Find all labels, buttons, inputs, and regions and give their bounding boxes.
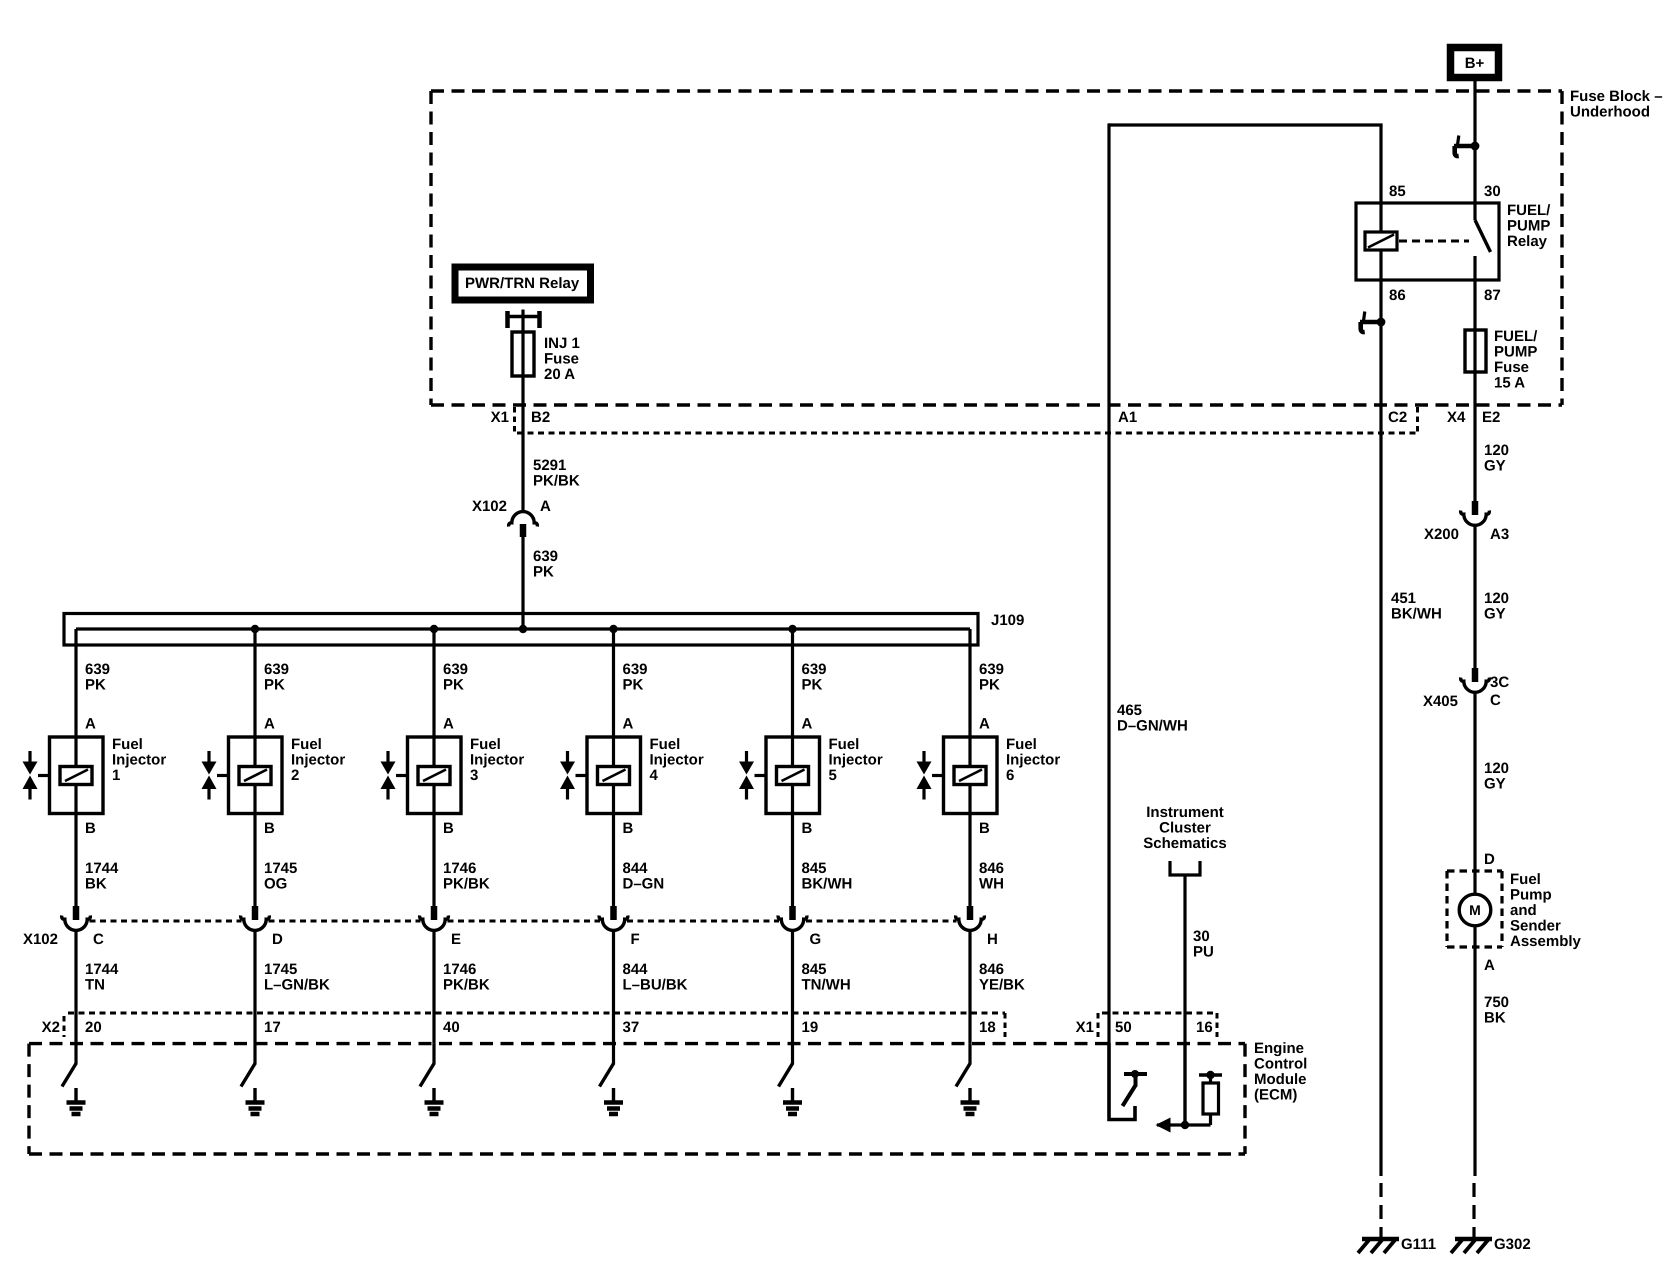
svg-text:Fuel: Fuel bbox=[291, 736, 322, 753]
svg-text:30: 30 bbox=[1484, 183, 1501, 200]
svg-text:A3: A3 bbox=[1490, 526, 1509, 543]
svg-text:17: 17 bbox=[264, 1019, 281, 1036]
svg-text:and: and bbox=[1510, 902, 1537, 919]
svg-text:2: 2 bbox=[291, 767, 299, 784]
svg-text:846: 846 bbox=[979, 961, 1004, 978]
svg-text:GY: GY bbox=[1484, 458, 1506, 475]
svg-text:PU: PU bbox=[1193, 944, 1214, 961]
svg-text:Fuel: Fuel bbox=[1006, 736, 1037, 753]
svg-text:C: C bbox=[93, 931, 104, 948]
svg-text:A1: A1 bbox=[1118, 409, 1137, 426]
svg-text:120: 120 bbox=[1484, 442, 1509, 459]
svg-text:A: A bbox=[85, 716, 96, 733]
svg-text:1745: 1745 bbox=[264, 961, 297, 978]
svg-text:Instrument: Instrument bbox=[1146, 804, 1224, 821]
svg-text:PK/BK: PK/BK bbox=[443, 876, 490, 893]
svg-text:85: 85 bbox=[1389, 183, 1406, 200]
svg-text:Relay: Relay bbox=[1507, 233, 1548, 250]
svg-text:Fuse Block –: Fuse Block – bbox=[1570, 88, 1663, 105]
svg-text:PK: PK bbox=[443, 677, 464, 694]
svg-text:TN/WH: TN/WH bbox=[802, 977, 851, 994]
svg-text:Fuse: Fuse bbox=[1494, 359, 1529, 376]
svg-text:GY: GY bbox=[1484, 606, 1506, 623]
svg-text:OG: OG bbox=[264, 876, 287, 893]
svg-text:L–GN/BK: L–GN/BK bbox=[264, 977, 330, 994]
svg-text:C: C bbox=[1490, 692, 1501, 709]
svg-text:Module: Module bbox=[1254, 1071, 1307, 1088]
svg-text:E2: E2 bbox=[1482, 409, 1500, 426]
svg-text:PK: PK bbox=[802, 677, 823, 694]
svg-text:5: 5 bbox=[829, 767, 837, 784]
svg-text:639: 639 bbox=[979, 661, 1004, 678]
svg-text:FUEL/: FUEL/ bbox=[1507, 202, 1551, 219]
svg-text:451: 451 bbox=[1391, 590, 1416, 607]
svg-text:Injector: Injector bbox=[650, 752, 704, 769]
svg-text:1744: 1744 bbox=[85, 860, 119, 877]
svg-text:3C: 3C bbox=[1490, 674, 1509, 691]
svg-text:639: 639 bbox=[802, 661, 827, 678]
svg-text:YE/BK: YE/BK bbox=[979, 977, 1025, 994]
svg-text:639: 639 bbox=[443, 661, 468, 678]
svg-text:PUMP: PUMP bbox=[1494, 344, 1537, 361]
svg-text:1: 1 bbox=[112, 767, 120, 784]
svg-text:D: D bbox=[1484, 851, 1495, 868]
svg-text:639: 639 bbox=[264, 661, 289, 678]
svg-text:(ECM): (ECM) bbox=[1254, 1087, 1297, 1104]
svg-text:G: G bbox=[810, 931, 822, 948]
svg-text:Schematics: Schematics bbox=[1143, 835, 1226, 852]
svg-text:X2: X2 bbox=[42, 1019, 60, 1036]
svg-text:Injector: Injector bbox=[1006, 752, 1060, 769]
svg-text:X102: X102 bbox=[472, 498, 507, 515]
svg-text:4: 4 bbox=[650, 767, 659, 784]
svg-text:Fuel: Fuel bbox=[470, 736, 501, 753]
svg-text:37: 37 bbox=[623, 1019, 640, 1036]
svg-text:B: B bbox=[264, 820, 275, 837]
svg-text:750: 750 bbox=[1484, 994, 1509, 1011]
svg-text:A: A bbox=[540, 498, 551, 515]
svg-text:PK/BK: PK/BK bbox=[533, 473, 580, 490]
svg-text:J109: J109 bbox=[991, 612, 1024, 629]
svg-text:GY: GY bbox=[1484, 776, 1506, 793]
svg-text:B: B bbox=[623, 820, 634, 837]
svg-text:A: A bbox=[1484, 957, 1495, 974]
svg-text:BK: BK bbox=[85, 876, 107, 893]
svg-text:Injector: Injector bbox=[470, 752, 524, 769]
svg-text:A: A bbox=[802, 716, 813, 733]
svg-text:465: 465 bbox=[1117, 702, 1142, 719]
svg-text:PK: PK bbox=[533, 564, 554, 581]
svg-text:B: B bbox=[979, 820, 990, 837]
svg-text:B: B bbox=[85, 820, 96, 837]
svg-text:40: 40 bbox=[443, 1019, 460, 1036]
svg-text:19: 19 bbox=[802, 1019, 819, 1036]
svg-text:15 A: 15 A bbox=[1494, 375, 1525, 392]
svg-text:M: M bbox=[1469, 902, 1481, 918]
svg-text:BK: BK bbox=[1484, 1010, 1506, 1027]
svg-text:Assembly: Assembly bbox=[1510, 933, 1582, 950]
svg-text:B+: B+ bbox=[1465, 55, 1485, 72]
svg-text:18: 18 bbox=[979, 1019, 996, 1036]
svg-text:A: A bbox=[979, 716, 990, 733]
svg-text:B2: B2 bbox=[531, 409, 550, 426]
svg-text:16: 16 bbox=[1196, 1019, 1213, 1036]
svg-text:A: A bbox=[443, 716, 454, 733]
svg-text:G111: G111 bbox=[1401, 1236, 1436, 1253]
svg-text:X4: X4 bbox=[1447, 409, 1466, 426]
svg-text:TN: TN bbox=[85, 977, 105, 994]
svg-text:B: B bbox=[443, 820, 454, 837]
svg-text:50: 50 bbox=[1115, 1019, 1132, 1036]
svg-text:20: 20 bbox=[85, 1019, 102, 1036]
svg-text:PK/BK: PK/BK bbox=[443, 977, 490, 994]
svg-text:1745: 1745 bbox=[264, 860, 297, 877]
svg-text:PK: PK bbox=[264, 677, 285, 694]
svg-text:Control: Control bbox=[1254, 1056, 1307, 1073]
svg-text:X200: X200 bbox=[1424, 526, 1459, 543]
svg-text:PK: PK bbox=[979, 677, 1000, 694]
svg-text:Fuel: Fuel bbox=[112, 736, 143, 753]
svg-text:WH: WH bbox=[979, 876, 1004, 893]
svg-text:87: 87 bbox=[1484, 287, 1501, 304]
svg-text:86: 86 bbox=[1389, 287, 1406, 304]
svg-text:D–GN/WH: D–GN/WH bbox=[1117, 718, 1188, 735]
svg-text:Engine: Engine bbox=[1254, 1040, 1304, 1057]
svg-text:Pump: Pump bbox=[1510, 887, 1552, 904]
svg-text:639: 639 bbox=[85, 661, 110, 678]
svg-text:Underhood: Underhood bbox=[1570, 104, 1650, 121]
svg-text:BK/WH: BK/WH bbox=[1391, 606, 1442, 623]
svg-text:G302: G302 bbox=[1494, 1236, 1531, 1253]
svg-text:H: H bbox=[987, 931, 998, 948]
svg-text:1746: 1746 bbox=[443, 860, 476, 877]
svg-text:X405: X405 bbox=[1423, 693, 1458, 710]
svg-text:120: 120 bbox=[1484, 760, 1509, 777]
svg-text:Sender: Sender bbox=[1510, 918, 1561, 935]
svg-text:INJ 1: INJ 1 bbox=[544, 335, 580, 352]
svg-text:639: 639 bbox=[533, 548, 558, 565]
svg-text:X1: X1 bbox=[1076, 1019, 1094, 1036]
svg-text:844: 844 bbox=[623, 961, 649, 978]
svg-text:A: A bbox=[264, 716, 275, 733]
svg-text:X102: X102 bbox=[23, 931, 58, 948]
svg-text:BK/WH: BK/WH bbox=[802, 876, 853, 893]
svg-text:844: 844 bbox=[623, 860, 649, 877]
svg-text:X1: X1 bbox=[491, 409, 509, 426]
svg-text:D–GN: D–GN bbox=[623, 876, 665, 893]
svg-text:FUEL/: FUEL/ bbox=[1494, 328, 1538, 345]
svg-text:845: 845 bbox=[802, 961, 827, 978]
svg-text:6: 6 bbox=[1006, 767, 1014, 784]
svg-text:L–BU/BK: L–BU/BK bbox=[623, 977, 688, 994]
svg-text:5291: 5291 bbox=[533, 457, 566, 474]
svg-text:845: 845 bbox=[802, 860, 827, 877]
svg-text:PUMP: PUMP bbox=[1507, 218, 1550, 235]
svg-text:PK: PK bbox=[85, 677, 106, 694]
svg-text:120: 120 bbox=[1484, 590, 1509, 607]
svg-text:846: 846 bbox=[979, 860, 1004, 877]
svg-text:Cluster: Cluster bbox=[1159, 820, 1211, 837]
svg-text:Fuel: Fuel bbox=[829, 736, 860, 753]
svg-text:Injector: Injector bbox=[829, 752, 883, 769]
svg-text:F: F bbox=[631, 931, 640, 948]
svg-text:20 A: 20 A bbox=[544, 366, 575, 383]
svg-text:639: 639 bbox=[623, 661, 648, 678]
svg-text:1744: 1744 bbox=[85, 961, 119, 978]
svg-text:30: 30 bbox=[1193, 928, 1210, 945]
svg-text:3: 3 bbox=[470, 767, 478, 784]
svg-text:C2: C2 bbox=[1388, 409, 1407, 426]
svg-text:1746: 1746 bbox=[443, 961, 476, 978]
svg-text:Fuse: Fuse bbox=[544, 351, 579, 368]
svg-text:PWR/TRN Relay: PWR/TRN Relay bbox=[465, 275, 580, 292]
svg-text:Injector: Injector bbox=[291, 752, 345, 769]
svg-text:PK: PK bbox=[623, 677, 644, 694]
svg-text:E: E bbox=[451, 931, 461, 948]
svg-text:Fuel: Fuel bbox=[1510, 871, 1541, 888]
svg-text:A: A bbox=[623, 716, 634, 733]
svg-text:Injector: Injector bbox=[112, 752, 166, 769]
svg-text:B: B bbox=[802, 820, 813, 837]
svg-text:Fuel: Fuel bbox=[650, 736, 681, 753]
svg-text:D: D bbox=[272, 931, 283, 948]
